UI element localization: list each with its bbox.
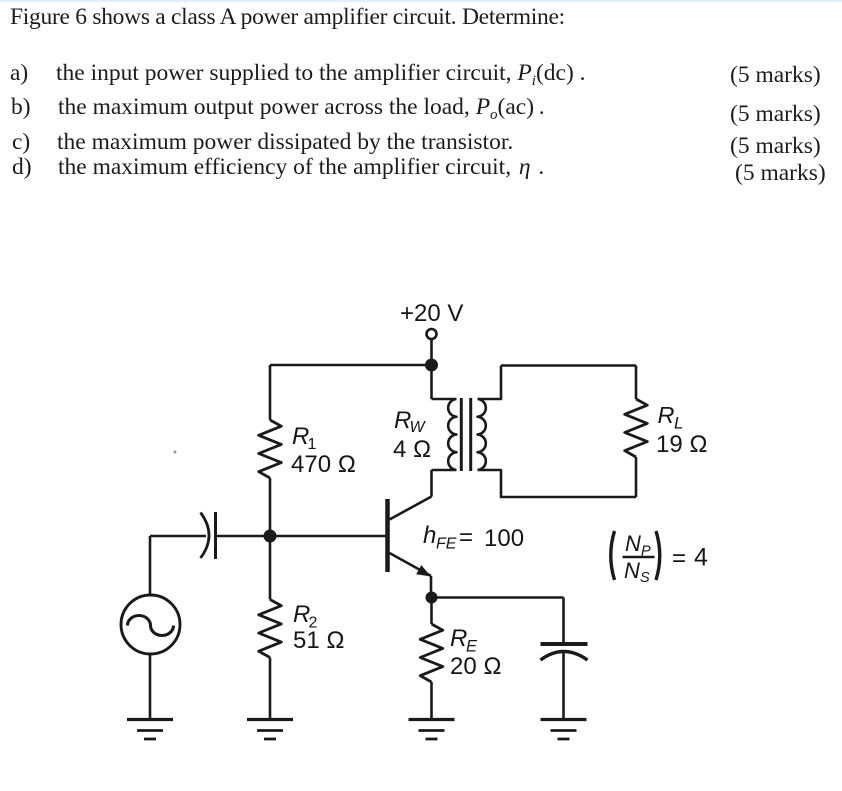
svg-text:L: L <box>674 414 683 433</box>
svg-text:P: P <box>641 544 651 560</box>
svg-text:R: R <box>450 625 467 652</box>
svg-text:W: W <box>410 419 427 436</box>
svg-text:=: = <box>672 545 686 572</box>
svg-text:4: 4 <box>694 544 708 572</box>
svg-text:FE: FE <box>436 536 457 553</box>
svg-text:4 Ω: 4 Ω <box>393 436 431 463</box>
svg-text:R: R <box>658 402 675 428</box>
svg-text:=: = <box>459 524 473 551</box>
svg-text:h: h <box>423 522 436 549</box>
svg-text:470 Ω: 470 Ω <box>291 451 356 478</box>
svg-text:N: N <box>625 531 641 556</box>
svg-text:S: S <box>640 570 650 586</box>
svg-text:+20 V: +20 V <box>400 300 463 327</box>
svg-text:100: 100 <box>484 525 524 552</box>
svg-text:N: N <box>624 558 640 583</box>
svg-text:51 Ω: 51 Ω <box>293 627 345 654</box>
svg-text:19 Ω: 19 Ω <box>656 431 708 458</box>
svg-text:20 Ω: 20 Ω <box>450 653 502 680</box>
